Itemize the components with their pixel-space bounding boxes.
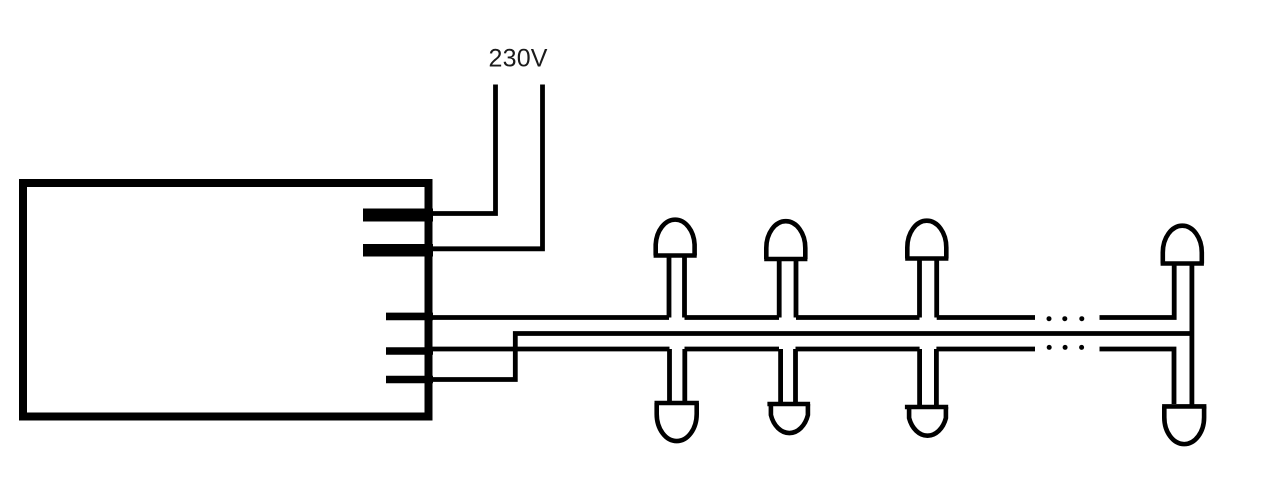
lamp D4 bulb	[655, 403, 699, 441]
wire top bus segment B (lamp D1 to lamp D2)	[685, 315, 780, 320]
lamp D3 bulb	[905, 221, 948, 259]
lamp D5 (down, leads)	[781, 349, 796, 404]
lamp D5 bulb	[767, 404, 810, 433]
wire bottom bus segment A (pin 4 to lamp D4)	[430, 347, 670, 352]
lamp D3 (up, leads)	[920, 259, 937, 318]
wire return bus (pin 5 jog up then right to node M)	[430, 334, 1192, 380]
svg-text:230V: 230V	[489, 45, 548, 73]
lamp D2 (up, leads)	[779, 259, 796, 318]
wire bottom bus segment C (lamp D5 to lamp D6)	[796, 347, 920, 352]
lamp D2 bulb	[764, 221, 807, 259]
power supply box U1	[23, 183, 429, 417]
pin 3 (top string output)	[386, 313, 433, 321]
wire top bus segment C (lamp D2 to lamp D3)	[796, 315, 920, 320]
wire bottom bus segment E (ellipsis to lamp D8 left lead)	[1100, 349, 1175, 404]
pin 5 (return output)	[386, 376, 433, 384]
wire mains L (230V left lead to pin 1)	[432, 85, 496, 214]
lamp D1 (up, leads)	[669, 256, 685, 318]
pin 2 (mains N)	[363, 244, 433, 257]
lamp D6 (down, leads)	[920, 349, 937, 407]
lamp D7 bulb	[1161, 226, 1204, 264]
wire top bus segment A (pin 3 to lamp D1)	[430, 315, 669, 320]
wire bottom bus segment D (lamp D6 to ellipsis)	[936, 347, 1035, 352]
lamp D7 (up far right, right lead shared)	[1190, 264, 1195, 407]
lamp D1 bulb	[654, 220, 697, 256]
pin 1 (mains L)	[363, 209, 433, 222]
lamp D6 bulb	[905, 407, 948, 436]
lamp D4 (down, leads)	[670, 349, 685, 403]
pin 4 (bottom string output)	[386, 347, 433, 355]
wire mains N (230V right lead to pin 2)	[432, 85, 543, 249]
wire top bus segment E (ellipsis to lamp D7 left lead)	[1100, 262, 1175, 318]
wire top bus segment D (lamp D3 to ellipsis)	[937, 315, 1035, 320]
lamp D8 bulb (down far right)	[1162, 406, 1206, 444]
ellipsis dots bottom row	[1047, 345, 1084, 350]
wire bottom bus segment B (lamp D4 to lamp D5)	[685, 347, 780, 352]
ellipsis dots top row	[1047, 316, 1085, 321]
